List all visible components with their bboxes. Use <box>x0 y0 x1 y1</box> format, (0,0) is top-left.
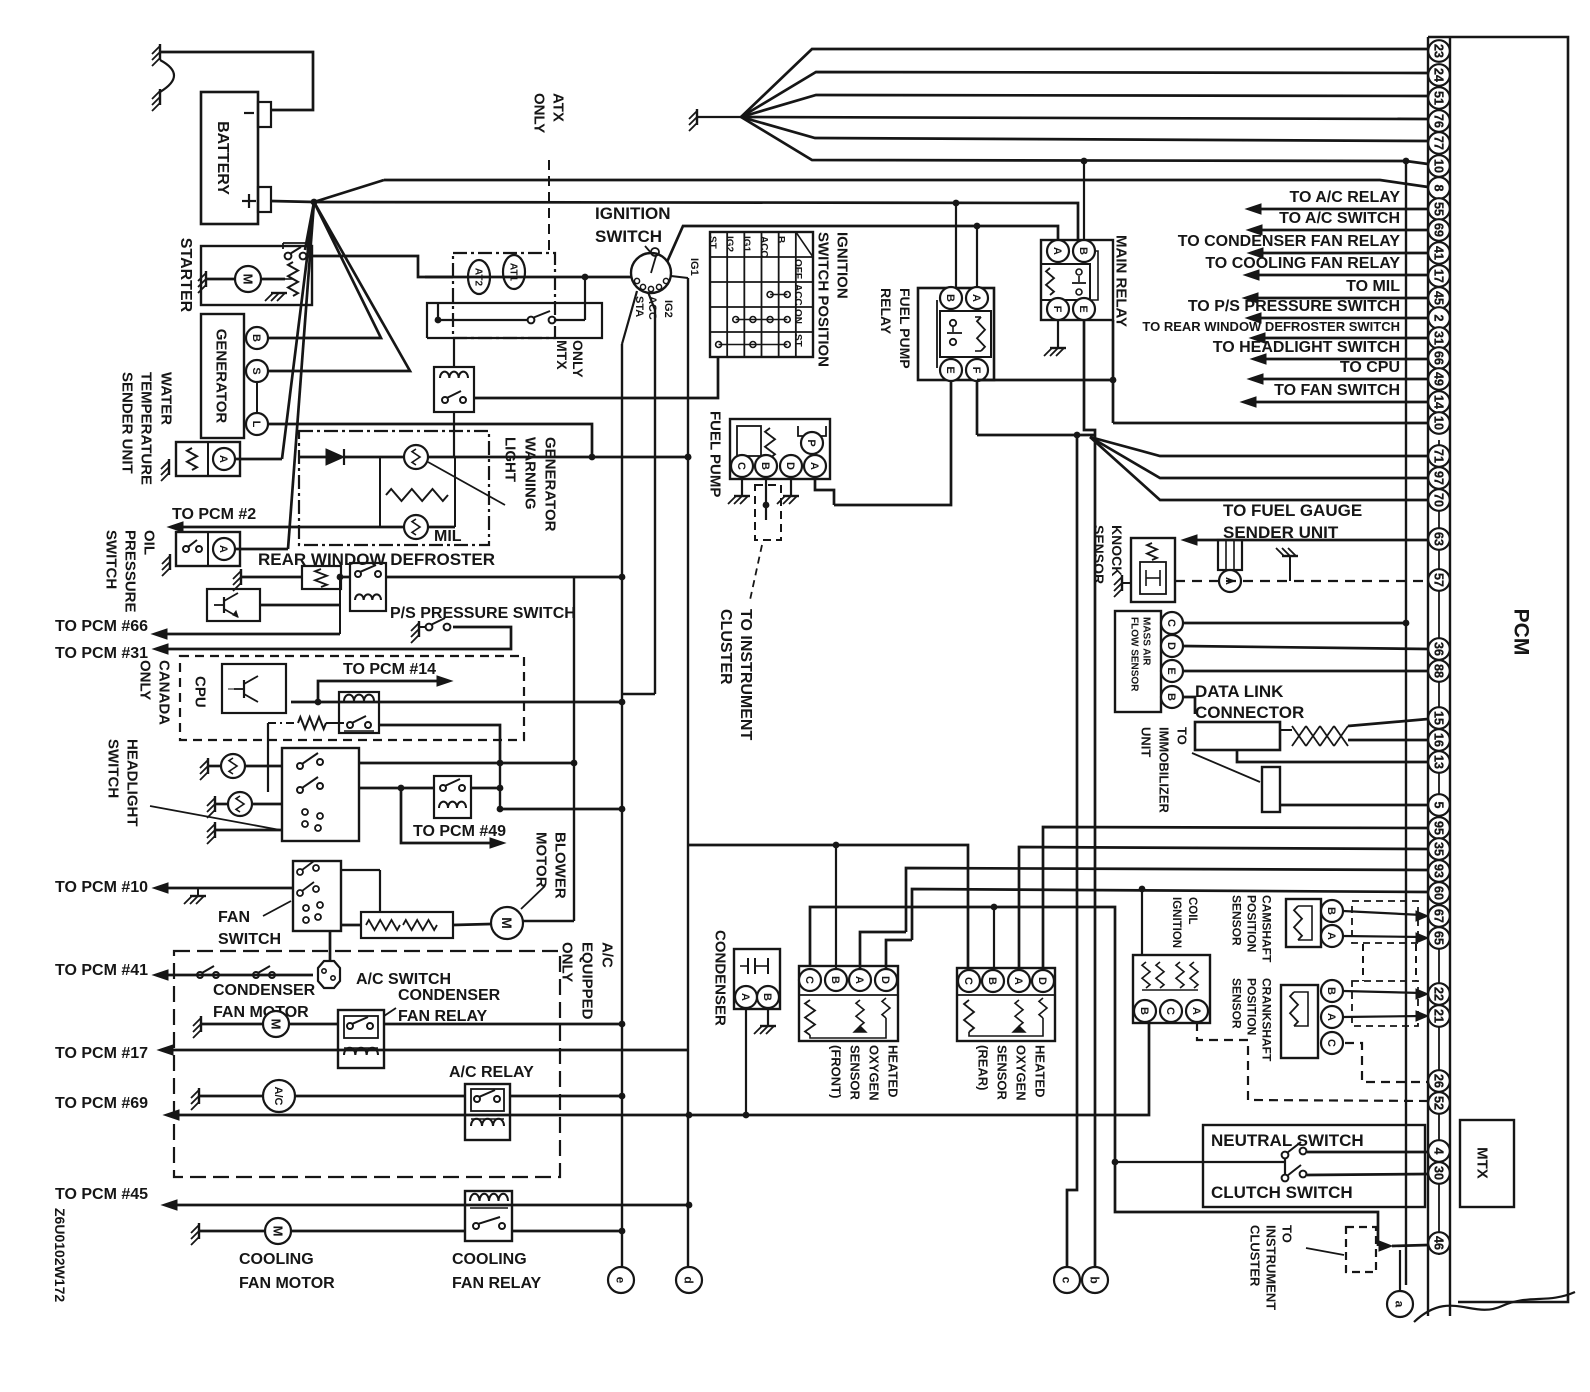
camshaft pin A <box>1321 925 1343 947</box>
P/S pressure switch contacts <box>426 624 433 631</box>
svg-text:66: 66 <box>1432 351 1446 365</box>
A/C compressor clutch <box>263 1080 295 1112</box>
AT dashed box <box>453 253 555 338</box>
svg-text:BLOWER: BLOWER <box>552 832 569 899</box>
cluster leader <box>1306 1248 1344 1255</box>
svg-text:ONLY: ONLY <box>531 93 548 133</box>
svg-text:SWITCH: SWITCH <box>218 931 281 948</box>
svg-text:HEATED: HEATED <box>885 1045 900 1097</box>
wire TO PCM #14 <box>318 681 440 702</box>
wire B rear up <box>993 907 995 970</box>
battery plus terminal <box>258 187 271 212</box>
svg-text:93: 93 <box>1432 864 1446 878</box>
svg-text:55: 55 <box>1432 202 1446 216</box>
svg-text:COIL: COIL <box>1186 897 1198 924</box>
page line d <box>687 278 689 1267</box>
svg-text:TO PCM #31: TO PCM #31 <box>55 645 148 662</box>
svg-text:35: 35 <box>1432 842 1446 856</box>
PCM pin 95 <box>1428 817 1450 839</box>
svg-text:B: B <box>1138 1007 1150 1015</box>
junction c branch <box>1074 432 1081 439</box>
blower relay <box>434 776 471 818</box>
wire starter switch to ignition line <box>306 256 453 277</box>
fuel pump ground C <box>741 477 743 496</box>
wire AC relay out <box>510 1095 621 1098</box>
svg-text:PCM: PCM <box>1509 609 1532 656</box>
main relay E down path <box>1112 320 1115 423</box>
wire TO P/S PRESSURE SWITCH <box>1246 313 1261 323</box>
svg-text:CRANKSHAFT: CRANKSHAFT <box>1260 978 1274 1062</box>
svg-text:UNIT: UNIT <box>1138 727 1153 757</box>
svg-text:ACC: ACC <box>792 284 803 306</box>
ground G3 <box>696 109 698 125</box>
svg-text:CAMSHAFT: CAMSHAFT <box>1260 895 1274 963</box>
svg-text:76: 76 <box>1432 114 1446 128</box>
svg-text:36: 36 <box>1432 642 1446 656</box>
fan to pins 71 97 70 <box>1090 437 1428 456</box>
junction fpr A <box>974 223 981 230</box>
TO PCM #41 arrow <box>153 970 168 980</box>
PCM pin 49 <box>1428 368 1450 390</box>
table diagonal <box>796 232 813 257</box>
svg-text:POSITION: POSITION <box>1245 978 1259 1035</box>
wire bus to pin60 <box>912 889 1428 940</box>
wire resistor drop <box>267 723 269 792</box>
table contacts row ON <box>733 317 739 323</box>
wire camshaft B to pin67 <box>1343 911 1422 915</box>
svg-text:NEUTRAL SWITCH: NEUTRAL SWITCH <box>1211 1131 1364 1150</box>
junction cpu wire <box>315 699 322 706</box>
svg-text:IGNITION: IGNITION <box>834 232 851 299</box>
svg-text:57: 57 <box>1432 573 1446 587</box>
connector circle a stem <box>1399 1250 1401 1291</box>
condenser fan relay leader <box>384 1008 396 1016</box>
bar bottom tear <box>1414 1292 1575 1322</box>
svg-text:WATER: WATER <box>158 372 175 425</box>
rotary drop x655 <box>648 292 655 310</box>
condenser capacitor <box>747 958 749 974</box>
cooling fan relay <box>465 1191 512 1241</box>
wire TO PCM #69 long <box>179 1022 1149 1115</box>
headlight lamp 1 ground <box>207 758 209 774</box>
svg-text:97: 97 <box>1432 471 1446 485</box>
svg-text:TO FUEL GAUGE: TO FUEL GAUGE <box>1223 501 1362 520</box>
PCM pin 93 <box>1428 860 1450 882</box>
PCM pin 63 <box>1428 528 1450 550</box>
A/C EQUIPPED ONLY dashed box <box>174 951 560 1177</box>
junction dot fuel pump relay feed <box>953 200 960 207</box>
PCM pin 66 <box>1428 347 1450 369</box>
blower resistor box <box>361 912 453 938</box>
svg-text:5: 5 <box>1432 802 1446 809</box>
svg-text:M: M <box>270 1226 285 1237</box>
svg-text:63: 63 <box>1432 532 1446 546</box>
svg-text:A: A <box>1190 1007 1202 1015</box>
svg-text:a: a <box>1393 1301 1407 1308</box>
wire water temp to diagonal <box>235 458 282 461</box>
node A battery positive fan <box>311 199 318 206</box>
fuel pump pin P <box>801 432 823 454</box>
crankshaft pin A <box>1321 1006 1343 1028</box>
svg-text:CONDENSER: CONDENSER <box>398 987 501 1004</box>
wire ground to compressor <box>199 1095 263 1098</box>
ignition coil windings <box>1142 962 1150 988</box>
svg-text:TO PCM #2: TO PCM #2 <box>172 506 256 523</box>
wire condenser A down <box>745 1008 747 1115</box>
svg-text:B: B <box>829 976 841 984</box>
svg-text:B: B <box>250 334 262 342</box>
ignition switch rotary <box>631 253 671 293</box>
svg-text:e: e <box>614 1277 628 1284</box>
svg-text:21: 21 <box>1432 1009 1446 1023</box>
wire to PCM 49 path <box>401 788 495 843</box>
svg-text:P: P <box>805 439 817 446</box>
battery plus sign <box>242 200 256 202</box>
CPU box <box>222 664 286 713</box>
main relay pin B <box>1073 240 1095 262</box>
svg-text:RELAY: RELAY <box>878 288 894 335</box>
svg-text:LIGHT: LIGHT <box>502 437 519 482</box>
svg-text:F: F <box>970 367 982 374</box>
fan wires to PCM pins <box>741 49 1428 117</box>
wire TO A/C RELAY <box>1246 204 1261 214</box>
wire MIL row <box>380 526 404 529</box>
ground G1 <box>159 44 161 60</box>
svg-text:E: E <box>944 366 956 373</box>
svg-text:GENERATOR: GENERATOR <box>213 329 230 424</box>
svg-text:TO PCM #45: TO PCM #45 <box>55 1186 148 1203</box>
svg-text:TEMPERATURE: TEMPERATURE <box>138 372 155 485</box>
svg-text:ST: ST <box>792 334 803 347</box>
crankshaft shield <box>1352 981 1418 1026</box>
svg-text:TO PCM #10: TO PCM #10 <box>55 879 148 896</box>
ground G2 <box>159 89 161 105</box>
wire fpr F down <box>976 381 979 435</box>
twisted pair <box>1292 726 1348 746</box>
wire headlight switch out1 <box>359 762 574 765</box>
PCM pin 52 <box>1428 1092 1450 1114</box>
heated oxygen sensor front box <box>799 966 898 1041</box>
svg-text:4: 4 <box>1432 1148 1446 1155</box>
main relay pin F <box>1047 298 1069 320</box>
wire crankshaft A to pin21 <box>1343 1016 1422 1017</box>
oil pressure switch box <box>176 532 240 566</box>
wire fpr E down <box>834 381 951 505</box>
starter ground <box>205 271 207 287</box>
svg-text:TO PCM #41: TO PCM #41 <box>55 962 148 979</box>
wire B front up <box>835 845 837 969</box>
starter solenoid ground <box>271 292 287 294</box>
oil pressure switch contacts <box>183 546 189 552</box>
fuel pump ground D <box>790 477 792 496</box>
wire mtx branch <box>438 319 528 321</box>
starter motor M <box>235 266 261 292</box>
PCM pin 23 <box>1428 40 1450 62</box>
svg-text:IMMOBILIZER: IMMOBILIZER <box>1156 727 1171 814</box>
wire TO COOLING FAN RELAY <box>1244 270 1259 280</box>
water temp sender pin A <box>213 448 235 470</box>
crankshaft pin B <box>1321 980 1343 1002</box>
junction condenser drop <box>743 1112 750 1119</box>
junction x1113 <box>1110 377 1117 384</box>
wire rotary to relay line <box>667 226 1058 262</box>
svg-text:8: 8 <box>1432 185 1446 192</box>
svg-text:10: 10 <box>1432 416 1446 430</box>
connector circle a <box>1387 1291 1413 1317</box>
wire cfm2 to relay <box>291 1230 465 1233</box>
svg-text:FLOW SENSOR: FLOW SENSOR <box>1128 617 1139 692</box>
svg-text:WARNING: WARNING <box>522 437 539 510</box>
wire diode to lamp <box>344 456 404 459</box>
svg-text:A/C SWITCH: A/C SWITCH <box>356 971 451 988</box>
battery minus sign <box>244 112 254 114</box>
ignition feed relay <box>434 367 474 412</box>
interlock AT2 <box>468 260 490 294</box>
defroster relay <box>350 563 386 611</box>
ignition switch leader <box>645 246 652 254</box>
svg-text:S: S <box>250 367 262 374</box>
svg-text:TO PCM #14: TO PCM #14 <box>343 661 436 678</box>
wire TO PCM #41 <box>168 974 313 977</box>
knock shield ground <box>1282 555 1298 557</box>
PCM pin 14 <box>1428 391 1450 413</box>
PCM pin 77 <box>1428 132 1450 154</box>
TO PCM #31 arrow <box>153 644 168 654</box>
generator warning lamp <box>404 445 428 469</box>
svg-text:TO MIL: TO MIL <box>1346 278 1400 295</box>
blower resistors <box>366 920 400 930</box>
ladder left rail <box>379 457 381 527</box>
svg-text:AT1: AT1 <box>507 263 518 282</box>
bar center link line <box>1438 440 1440 1255</box>
svg-text:TO: TO <box>1174 727 1189 745</box>
wire node A to water temp sender <box>282 202 314 459</box>
headlight lamp 1 <box>221 754 245 778</box>
headlight switch contacts <box>297 763 303 769</box>
svg-text:SENSOR: SENSOR <box>1230 978 1244 1029</box>
fuel pump box <box>730 419 830 479</box>
PCM pin 13 <box>1428 751 1450 773</box>
main relay ground <box>1057 320 1059 348</box>
svg-text:OXYGEN: OXYGEN <box>1013 1045 1028 1101</box>
crankshaft pin C <box>1321 1032 1343 1054</box>
svg-text:ON: ON <box>792 309 803 324</box>
headlight switch box <box>282 748 359 841</box>
ignition coil pin B <box>1134 1000 1156 1022</box>
svg-text:OXYGEN: OXYGEN <box>866 1045 881 1101</box>
svg-text:67: 67 <box>1432 909 1446 923</box>
P/S pressure switch ground <box>418 621 420 637</box>
svg-text:B: B <box>759 462 771 470</box>
svg-text:77: 77 <box>1432 136 1446 150</box>
svg-text:52: 52 <box>1432 1096 1446 1110</box>
wire DLC to pin15 <box>1348 719 1428 726</box>
svg-text:70: 70 <box>1432 493 1446 507</box>
svg-text:TO PCM #17: TO PCM #17 <box>55 1045 148 1062</box>
wire TO HEADLIGHT SWITCH <box>1251 354 1266 364</box>
cooling fan motor M <box>265 1218 291 1244</box>
TO PCM #66 arrow <box>152 629 167 639</box>
svg-text:TO A/C RELAY: TO A/C RELAY <box>1289 189 1400 206</box>
junction B front <box>833 842 840 849</box>
svg-text:D: D <box>1165 642 1177 650</box>
instrument cluster arrow <box>1379 1241 1392 1251</box>
svg-text:IG2: IG2 <box>724 236 735 253</box>
svg-text:SENSOR: SENSOR <box>994 1045 1009 1101</box>
svg-text:B: B <box>1165 693 1177 701</box>
svg-text:TO PCM #66: TO PCM #66 <box>55 618 148 635</box>
TO PCM #69 arrow <box>164 1110 179 1120</box>
wire crank C dashed to pin26 <box>1345 1043 1428 1082</box>
vertical x501 <box>499 763 501 809</box>
svg-text:c: c <box>1060 1277 1074 1284</box>
wire lamp2 to switch <box>252 803 282 806</box>
svg-text:15: 15 <box>1432 711 1446 725</box>
PCM pin 45 <box>1428 287 1450 309</box>
knock sensor box <box>1131 538 1175 602</box>
headlight lamp 2 <box>228 792 252 816</box>
wire headlight switch out2 <box>359 787 434 790</box>
diode D1 <box>299 456 326 459</box>
generator warning light box <box>299 431 489 545</box>
neutral clutch box <box>1203 1125 1425 1207</box>
fuel pump pin D <box>780 455 802 477</box>
svg-text:SWITCH POSITION: SWITCH POSITION <box>815 232 832 367</box>
data link connector <box>1195 722 1280 750</box>
PCM pin 35 <box>1428 838 1450 860</box>
wire cooling fan relay out <box>512 1230 621 1233</box>
wire node A main feed y202 <box>314 202 1078 240</box>
wire fan switch to ac switch <box>329 931 332 962</box>
svg-text:2: 2 <box>1432 315 1446 322</box>
wire TO FAN SWITCH <box>1241 397 1256 407</box>
junction coil drop <box>1139 886 1146 893</box>
svg-text:16: 16 <box>1432 733 1446 747</box>
cooling fan motor ground <box>198 1223 200 1239</box>
svg-text:SENDER UNIT: SENDER UNIT <box>119 372 136 474</box>
condenser pin A <box>735 986 757 1008</box>
fuel gauge arrow <box>1182 535 1197 545</box>
svg-text:FUEL PUMP: FUEL PUMP <box>707 411 724 497</box>
wire coil to relay <box>341 576 350 579</box>
svg-text:SWITCH: SWITCH <box>103 530 120 589</box>
wire ground to battery minus <box>160 52 313 110</box>
svg-text:TO CONDENSER FAN RELAY: TO CONDENSER FAN RELAY <box>1178 233 1401 250</box>
wire fpr B up <box>955 203 957 287</box>
svg-text:B: B <box>944 294 956 302</box>
main relay pin A <box>1047 240 1069 262</box>
svg-text:CONDENSER: CONDENSER <box>712 930 729 1026</box>
svg-text:IGNITION: IGNITION <box>1170 897 1182 948</box>
main relay contact <box>1076 269 1082 275</box>
oil pressure switch ground <box>169 554 171 570</box>
fuel pump resistor <box>765 428 775 458</box>
svg-text:CANADA: CANADA <box>156 660 173 725</box>
wire TO PCM #66 <box>167 633 340 636</box>
svg-text:CLUTCH SWITCH: CLUTCH SWITCH <box>1211 1183 1353 1202</box>
svg-text:B: B <box>775 236 786 243</box>
wire knock to pin57 dashed <box>1175 580 1428 582</box>
svg-text:17: 17 <box>1432 269 1446 283</box>
svg-text:TO COOLING FAN RELAY: TO COOLING FAN RELAY <box>1205 255 1400 272</box>
ignition coil pin C <box>1160 1000 1182 1022</box>
PCM pin 21 <box>1428 1005 1450 1027</box>
PCM pin 10 <box>1428 155 1450 177</box>
svg-text:E: E <box>1165 667 1177 674</box>
main relay B up <box>1083 161 1085 240</box>
battery minus terminal <box>258 102 271 127</box>
wire MAF C <box>1183 622 1406 625</box>
generator terminal B <box>246 327 268 349</box>
table contacts row ACC <box>767 292 773 298</box>
wire compressor to AC relay <box>295 1095 465 1098</box>
svg-text:FAN MOTOR: FAN MOTOR <box>239 1275 335 1292</box>
PCM pin 71 <box>1428 445 1450 467</box>
fuel pump pin B <box>755 455 777 477</box>
wire pin63 to fuel gauge <box>1197 539 1428 542</box>
rotary drop x622 stub <box>622 291 637 344</box>
wire relay out y398 <box>474 357 718 398</box>
fan switch wire ground <box>197 888 199 896</box>
fan switch leader <box>263 901 291 916</box>
svg-text:C: C <box>1164 1007 1176 1015</box>
headlight switch ground 3 <box>214 822 216 838</box>
water temp sender element <box>187 448 197 470</box>
fuel pump relay pin E <box>940 359 962 381</box>
HO2S front pins <box>799 969 821 991</box>
MTX box <box>1460 1120 1514 1207</box>
wire clutch lower path <box>1115 1162 1378 1246</box>
main relay inner <box>1041 264 1090 300</box>
camshaft pin B <box>1321 900 1343 922</box>
PCM pin 4 <box>1428 1140 1450 1162</box>
wire ground to defroster coil <box>241 576 302 579</box>
wire relay up <box>453 338 455 367</box>
svg-text:Z6U0102W172: Z6U0102W172 <box>52 1208 68 1302</box>
generator terminal L <box>246 413 268 435</box>
CPU relay K1 <box>339 692 379 733</box>
thermo contacts 2 <box>253 972 259 978</box>
wire fuel pump A loop <box>815 477 834 505</box>
wire lamp right <box>428 456 688 459</box>
svg-text:MAIN RELAY: MAIN RELAY <box>1113 235 1130 327</box>
wire node A to generator S <box>269 202 410 371</box>
svg-text:A: A <box>1012 977 1024 985</box>
svg-text:MOTOR: MOTOR <box>533 832 550 888</box>
svg-text:CPU: CPU <box>192 676 209 708</box>
condenser pin B <box>757 986 779 1008</box>
blower motor M <box>491 907 523 939</box>
svg-text:46: 46 <box>1432 1236 1446 1250</box>
ladder right rail <box>454 457 456 527</box>
svg-text:SWITCH: SWITCH <box>595 227 662 246</box>
PCM pin 88 <box>1428 660 1450 682</box>
A/C compressor ground <box>198 1088 200 1104</box>
svg-text:24: 24 <box>1432 68 1446 82</box>
junction dots blower <box>497 785 504 792</box>
PCM pin 30 <box>1428 1162 1450 1184</box>
svg-text:CONNECTOR: CONNECTOR <box>1195 703 1304 722</box>
svg-text:45: 45 <box>1432 291 1446 305</box>
svg-text:TO CPU: TO CPU <box>1340 359 1400 376</box>
fuel pump pin A <box>804 455 826 477</box>
wire relay bottom bus <box>977 379 1113 382</box>
svg-text:95: 95 <box>1432 821 1446 835</box>
wire D front staircase <box>886 940 912 969</box>
immobilizer connector <box>1262 767 1280 812</box>
PCM pin 67 <box>1428 905 1450 927</box>
wire TO PCM #10 <box>168 887 293 890</box>
